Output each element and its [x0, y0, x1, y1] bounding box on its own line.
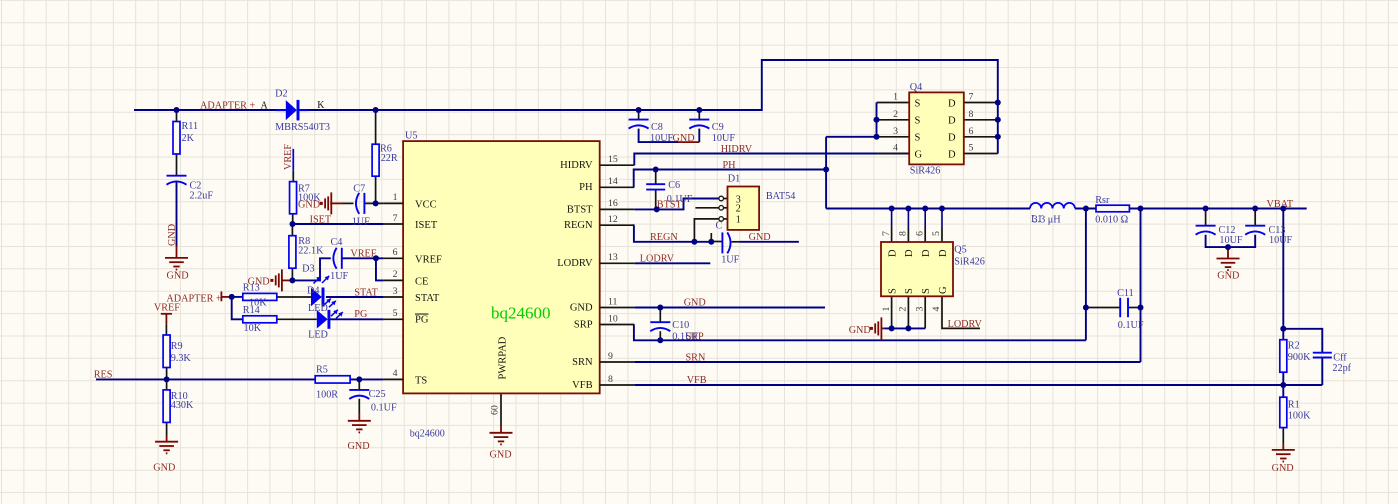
- svg-text:0.1UF: 0.1UF: [672, 331, 698, 342]
- svg-text:LED: LED: [308, 330, 328, 341]
- svg-text:CE: CE: [415, 277, 428, 288]
- svg-text:SRP: SRP: [574, 319, 593, 330]
- svg-text:MBRS540T3: MBRS540T3: [275, 122, 330, 133]
- svg-text:D: D: [938, 249, 949, 257]
- svg-text:4: 4: [393, 368, 398, 379]
- svg-text:SiR426: SiR426: [954, 257, 985, 268]
- svg-text:11: 11: [608, 296, 618, 307]
- svg-text:RES: RES: [94, 370, 113, 381]
- svg-text:D: D: [887, 249, 898, 257]
- svg-text:VBAT: VBAT: [1267, 199, 1294, 210]
- svg-text:GND: GND: [348, 441, 370, 452]
- svg-text:LODRV: LODRV: [557, 258, 593, 269]
- svg-text:3: 3: [893, 126, 898, 137]
- svg-text:10UF: 10UF: [650, 133, 674, 144]
- svg-text:0.010 Ω: 0.010 Ω: [1095, 214, 1128, 225]
- svg-text:Rsr: Rsr: [1095, 195, 1110, 206]
- svg-text:HIDRV: HIDRV: [560, 160, 593, 171]
- svg-text:VREF: VREF: [283, 144, 294, 170]
- svg-text:60: 60: [490, 405, 501, 415]
- svg-text:7: 7: [393, 213, 398, 224]
- svg-text:4: 4: [931, 307, 942, 312]
- svg-text:VFB: VFB: [572, 380, 592, 391]
- svg-text:2.2uF: 2.2uF: [190, 190, 214, 201]
- svg-text:LODRV: LODRV: [640, 254, 675, 265]
- svg-text:A: A: [261, 100, 269, 111]
- svg-text:PH: PH: [723, 160, 737, 171]
- svg-text:R1: R1: [1288, 399, 1300, 410]
- svg-text:1UF: 1UF: [352, 216, 370, 227]
- svg-text:1UF: 1UF: [330, 271, 348, 282]
- svg-text:2: 2: [736, 204, 741, 215]
- svg-text:GND: GND: [1272, 463, 1294, 474]
- svg-text:100R: 100R: [316, 389, 338, 400]
- svg-text:12: 12: [608, 214, 618, 225]
- svg-text:1: 1: [893, 92, 898, 103]
- svg-text:C4: C4: [331, 237, 343, 248]
- svg-text:C9: C9: [712, 122, 724, 133]
- svg-text:0.1UF: 0.1UF: [667, 194, 693, 205]
- svg-text:VREF: VREF: [154, 303, 180, 314]
- svg-text:PH: PH: [579, 182, 593, 193]
- svg-text:C6: C6: [668, 180, 680, 191]
- svg-text:1: 1: [736, 215, 741, 226]
- svg-text:bq24600: bq24600: [410, 429, 445, 440]
- svg-text:8: 8: [969, 109, 974, 120]
- svg-text:bq24600: bq24600: [491, 304, 551, 323]
- svg-text:22R: 22R: [381, 153, 398, 164]
- svg-text:VREF: VREF: [415, 254, 442, 265]
- svg-text:R13: R13: [243, 283, 260, 294]
- svg-text:6: 6: [914, 231, 925, 236]
- svg-text:9.3K: 9.3K: [171, 353, 192, 364]
- svg-text:15: 15: [608, 154, 618, 165]
- svg-text:D1: D1: [728, 174, 740, 185]
- svg-text:8: 8: [898, 231, 909, 236]
- svg-text:BAT54: BAT54: [766, 191, 795, 202]
- svg-text:GND: GND: [749, 232, 771, 243]
- svg-text:GND: GND: [849, 325, 871, 336]
- svg-text:D2: D2: [275, 89, 287, 100]
- svg-text:SRN: SRN: [572, 357, 593, 368]
- svg-text:0.1UF: 0.1UF: [1118, 320, 1144, 331]
- svg-text:D: D: [948, 116, 956, 127]
- svg-text:PG: PG: [354, 309, 368, 320]
- svg-text:S: S: [915, 133, 921, 144]
- svg-text:D4: D4: [307, 286, 319, 297]
- svg-text:D: D: [948, 133, 956, 144]
- svg-text:R14: R14: [243, 305, 260, 316]
- svg-text:9: 9: [608, 351, 613, 362]
- svg-text:22pf: 22pf: [1332, 363, 1351, 374]
- svg-text:6: 6: [393, 247, 398, 258]
- svg-text:2K: 2K: [182, 133, 195, 144]
- svg-text:5: 5: [931, 231, 942, 236]
- svg-text:5: 5: [393, 308, 398, 319]
- svg-text:R5: R5: [316, 364, 328, 375]
- svg-text:TS: TS: [415, 376, 427, 387]
- svg-text:2: 2: [898, 307, 909, 312]
- svg-text:8: 8: [608, 374, 613, 385]
- svg-text:S: S: [887, 288, 898, 294]
- svg-text:D3: D3: [302, 263, 314, 274]
- svg-text:10: 10: [608, 313, 618, 324]
- svg-text:10K: 10K: [244, 323, 262, 334]
- svg-text:C25: C25: [369, 389, 386, 400]
- svg-text:LED: LED: [308, 303, 328, 314]
- svg-text:GND: GND: [684, 298, 706, 309]
- svg-text:Q5: Q5: [954, 245, 966, 256]
- svg-text:GND: GND: [570, 302, 593, 313]
- svg-text:HIDRV: HIDRV: [721, 144, 753, 155]
- svg-text:3: 3: [914, 307, 925, 312]
- svg-text:Q4: Q4: [910, 82, 922, 93]
- svg-text:GND: GND: [490, 450, 512, 461]
- svg-text:430K: 430K: [171, 400, 194, 411]
- svg-text:7: 7: [881, 231, 892, 236]
- svg-text:ISET: ISET: [415, 220, 438, 231]
- svg-text:100K: 100K: [1288, 411, 1311, 422]
- svg-text:REGN: REGN: [650, 232, 678, 243]
- svg-text:VCC: VCC: [415, 200, 437, 211]
- svg-text:S: S: [904, 288, 915, 294]
- svg-text:3: 3: [393, 286, 398, 297]
- svg-text:S: S: [921, 288, 932, 294]
- svg-text:R2: R2: [1288, 341, 1300, 352]
- svg-text:SRN: SRN: [686, 352, 706, 363]
- svg-text:K: K: [317, 100, 325, 111]
- svg-text:1UF: 1UF: [721, 254, 739, 265]
- svg-text:5: 5: [969, 143, 974, 154]
- svg-text:R11: R11: [182, 121, 199, 132]
- svg-text:D: D: [948, 149, 956, 160]
- svg-text:100K: 100K: [298, 193, 321, 204]
- svg-text:13: 13: [608, 252, 618, 263]
- svg-text:900K: 900K: [1288, 352, 1311, 363]
- svg-text:1: 1: [393, 192, 398, 203]
- svg-text:1: 1: [881, 307, 892, 312]
- svg-text:0.1UF: 0.1UF: [371, 403, 397, 414]
- svg-text:REGN: REGN: [564, 220, 593, 231]
- svg-text:10UF: 10UF: [1269, 235, 1293, 246]
- svg-text:4: 4: [893, 143, 898, 154]
- svg-text:LODRV: LODRV: [948, 319, 983, 330]
- svg-text:S: S: [915, 98, 921, 109]
- svg-text:10UF: 10UF: [712, 133, 736, 144]
- svg-text:STAT: STAT: [354, 287, 378, 298]
- svg-text:16: 16: [608, 198, 618, 209]
- svg-text:10UF: 10UF: [1219, 235, 1243, 246]
- svg-text:D: D: [921, 249, 932, 257]
- svg-text:PWRPAD: PWRPAD: [498, 336, 509, 379]
- svg-text:D: D: [948, 98, 956, 109]
- svg-text:VREF: VREF: [350, 249, 376, 260]
- svg-text:22.1K: 22.1K: [298, 246, 324, 257]
- svg-text:C7: C7: [353, 183, 365, 194]
- svg-text:2: 2: [393, 269, 398, 280]
- svg-text:GND: GND: [673, 133, 695, 144]
- svg-text:ADAPTER +: ADAPTER +: [200, 101, 256, 112]
- svg-text:GND: GND: [1217, 270, 1239, 281]
- svg-text:BTST: BTST: [567, 204, 593, 215]
- svg-text:6: 6: [969, 126, 974, 137]
- svg-text:14: 14: [608, 176, 618, 187]
- svg-text:G: G: [915, 149, 923, 160]
- svg-text:U5: U5: [405, 131, 417, 142]
- svg-text:GND: GND: [167, 224, 178, 246]
- svg-text:R9: R9: [171, 341, 183, 352]
- svg-text:D: D: [904, 249, 915, 257]
- svg-text:GND: GND: [153, 463, 175, 474]
- svg-text:VFB: VFB: [687, 375, 707, 386]
- svg-text:C8: C8: [651, 122, 663, 133]
- svg-text:SiR426: SiR426: [910, 165, 941, 176]
- svg-text:C11: C11: [1117, 288, 1134, 299]
- svg-text:2: 2: [893, 109, 898, 120]
- svg-text:PG: PG: [415, 315, 429, 326]
- svg-text:G: G: [938, 286, 949, 294]
- svg-text:C10: C10: [672, 320, 689, 331]
- svg-text:3.3 μH: 3.3 μH: [1033, 215, 1062, 226]
- svg-text:7: 7: [969, 92, 974, 103]
- svg-text:ISET: ISET: [310, 214, 332, 225]
- svg-text:C: C: [716, 221, 723, 232]
- svg-text:S: S: [915, 116, 921, 127]
- svg-text:GND: GND: [167, 270, 189, 281]
- svg-text:STAT: STAT: [415, 293, 440, 304]
